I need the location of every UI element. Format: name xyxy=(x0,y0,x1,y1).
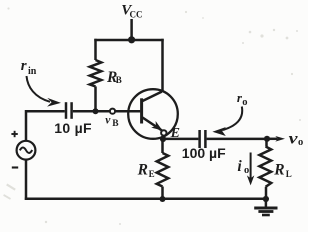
wire: RB top lead xyxy=(94,39,97,60)
wire: RL bottom lead xyxy=(265,187,268,199)
transistor Q1 base bar xyxy=(140,98,143,123)
wire: node E down to RE xyxy=(161,136,164,153)
wire: RE bottom lead xyxy=(161,187,164,199)
resistor RE zigzag xyxy=(157,153,169,187)
svg-text:E: E xyxy=(170,126,180,141)
wire: collector lead from rail xyxy=(161,39,164,92)
svg-text:E: E xyxy=(149,169,155,179)
wire: node vB to transistor base xyxy=(116,110,141,113)
arrow io xyxy=(250,153,252,179)
resistor RB zigzag xyxy=(90,60,102,86)
wire: RB bottom lead xyxy=(94,86,97,111)
svg-text:10 µF: 10 µF xyxy=(54,120,92,136)
node vB open circle xyxy=(110,109,115,114)
svg-text:L: L xyxy=(286,169,292,179)
svg-text:B: B xyxy=(116,75,122,85)
svg-text:in: in xyxy=(28,66,37,77)
source VS circle xyxy=(17,141,36,160)
wire: bottom rail xyxy=(25,198,266,201)
terminal E open circle xyxy=(161,130,166,135)
source VS plus sign xyxy=(11,133,17,135)
svg-text:i: i xyxy=(237,158,242,175)
wire: output node down to RL xyxy=(265,139,268,147)
junction dot at RB / input wire xyxy=(93,108,99,114)
junction dot at Vcc / rail xyxy=(128,36,135,43)
svg-text:CC: CC xyxy=(130,10,143,20)
svg-text:100 µF: 100 µF xyxy=(182,145,226,161)
capacitor C2 100uF plates xyxy=(198,130,201,148)
source VS left lead lower xyxy=(25,160,28,201)
source VS minus sign xyxy=(12,166,18,168)
wire: top rail xyxy=(94,39,163,42)
junction dot RL / bottom rail xyxy=(263,196,269,202)
svg-text:B: B xyxy=(112,119,119,129)
transistor Q1 emitter arrowhead xyxy=(151,121,162,131)
svg-text:o: o xyxy=(244,165,249,176)
svg-text:R: R xyxy=(273,162,284,179)
transistor Q1 collector diagonal xyxy=(143,92,162,101)
svg-text:o: o xyxy=(242,97,247,108)
wire: capacitor C2 to output node xyxy=(207,138,267,141)
transistor Q1 circle xyxy=(128,89,178,139)
arrow rin curved xyxy=(27,76,51,102)
svg-text:R: R xyxy=(137,162,148,179)
wire: capacitor C1 to node vB xyxy=(73,110,110,113)
transistor Q1 emitter diagonal xyxy=(143,118,163,132)
svg-text:r: r xyxy=(21,58,27,74)
svg-text:v: v xyxy=(105,114,111,126)
svg-text:o: o xyxy=(298,137,303,148)
junction dot at node E xyxy=(160,136,166,142)
wire: input top from source to capacitor C1 xyxy=(26,111,65,141)
ground xyxy=(265,199,268,207)
junction dot RE / bottom rail xyxy=(160,196,166,202)
source VS sine symbol xyxy=(20,147,32,153)
wire: node E to capacitor C2 xyxy=(163,138,198,141)
junction dot at output node xyxy=(264,136,270,142)
resistor RL zigzag xyxy=(259,147,271,187)
arrow to vo xyxy=(267,138,278,141)
capacitor C1 10uF plates xyxy=(65,102,68,119)
arrow ro curved xyxy=(223,107,242,131)
power Vcc lead xyxy=(130,19,133,40)
